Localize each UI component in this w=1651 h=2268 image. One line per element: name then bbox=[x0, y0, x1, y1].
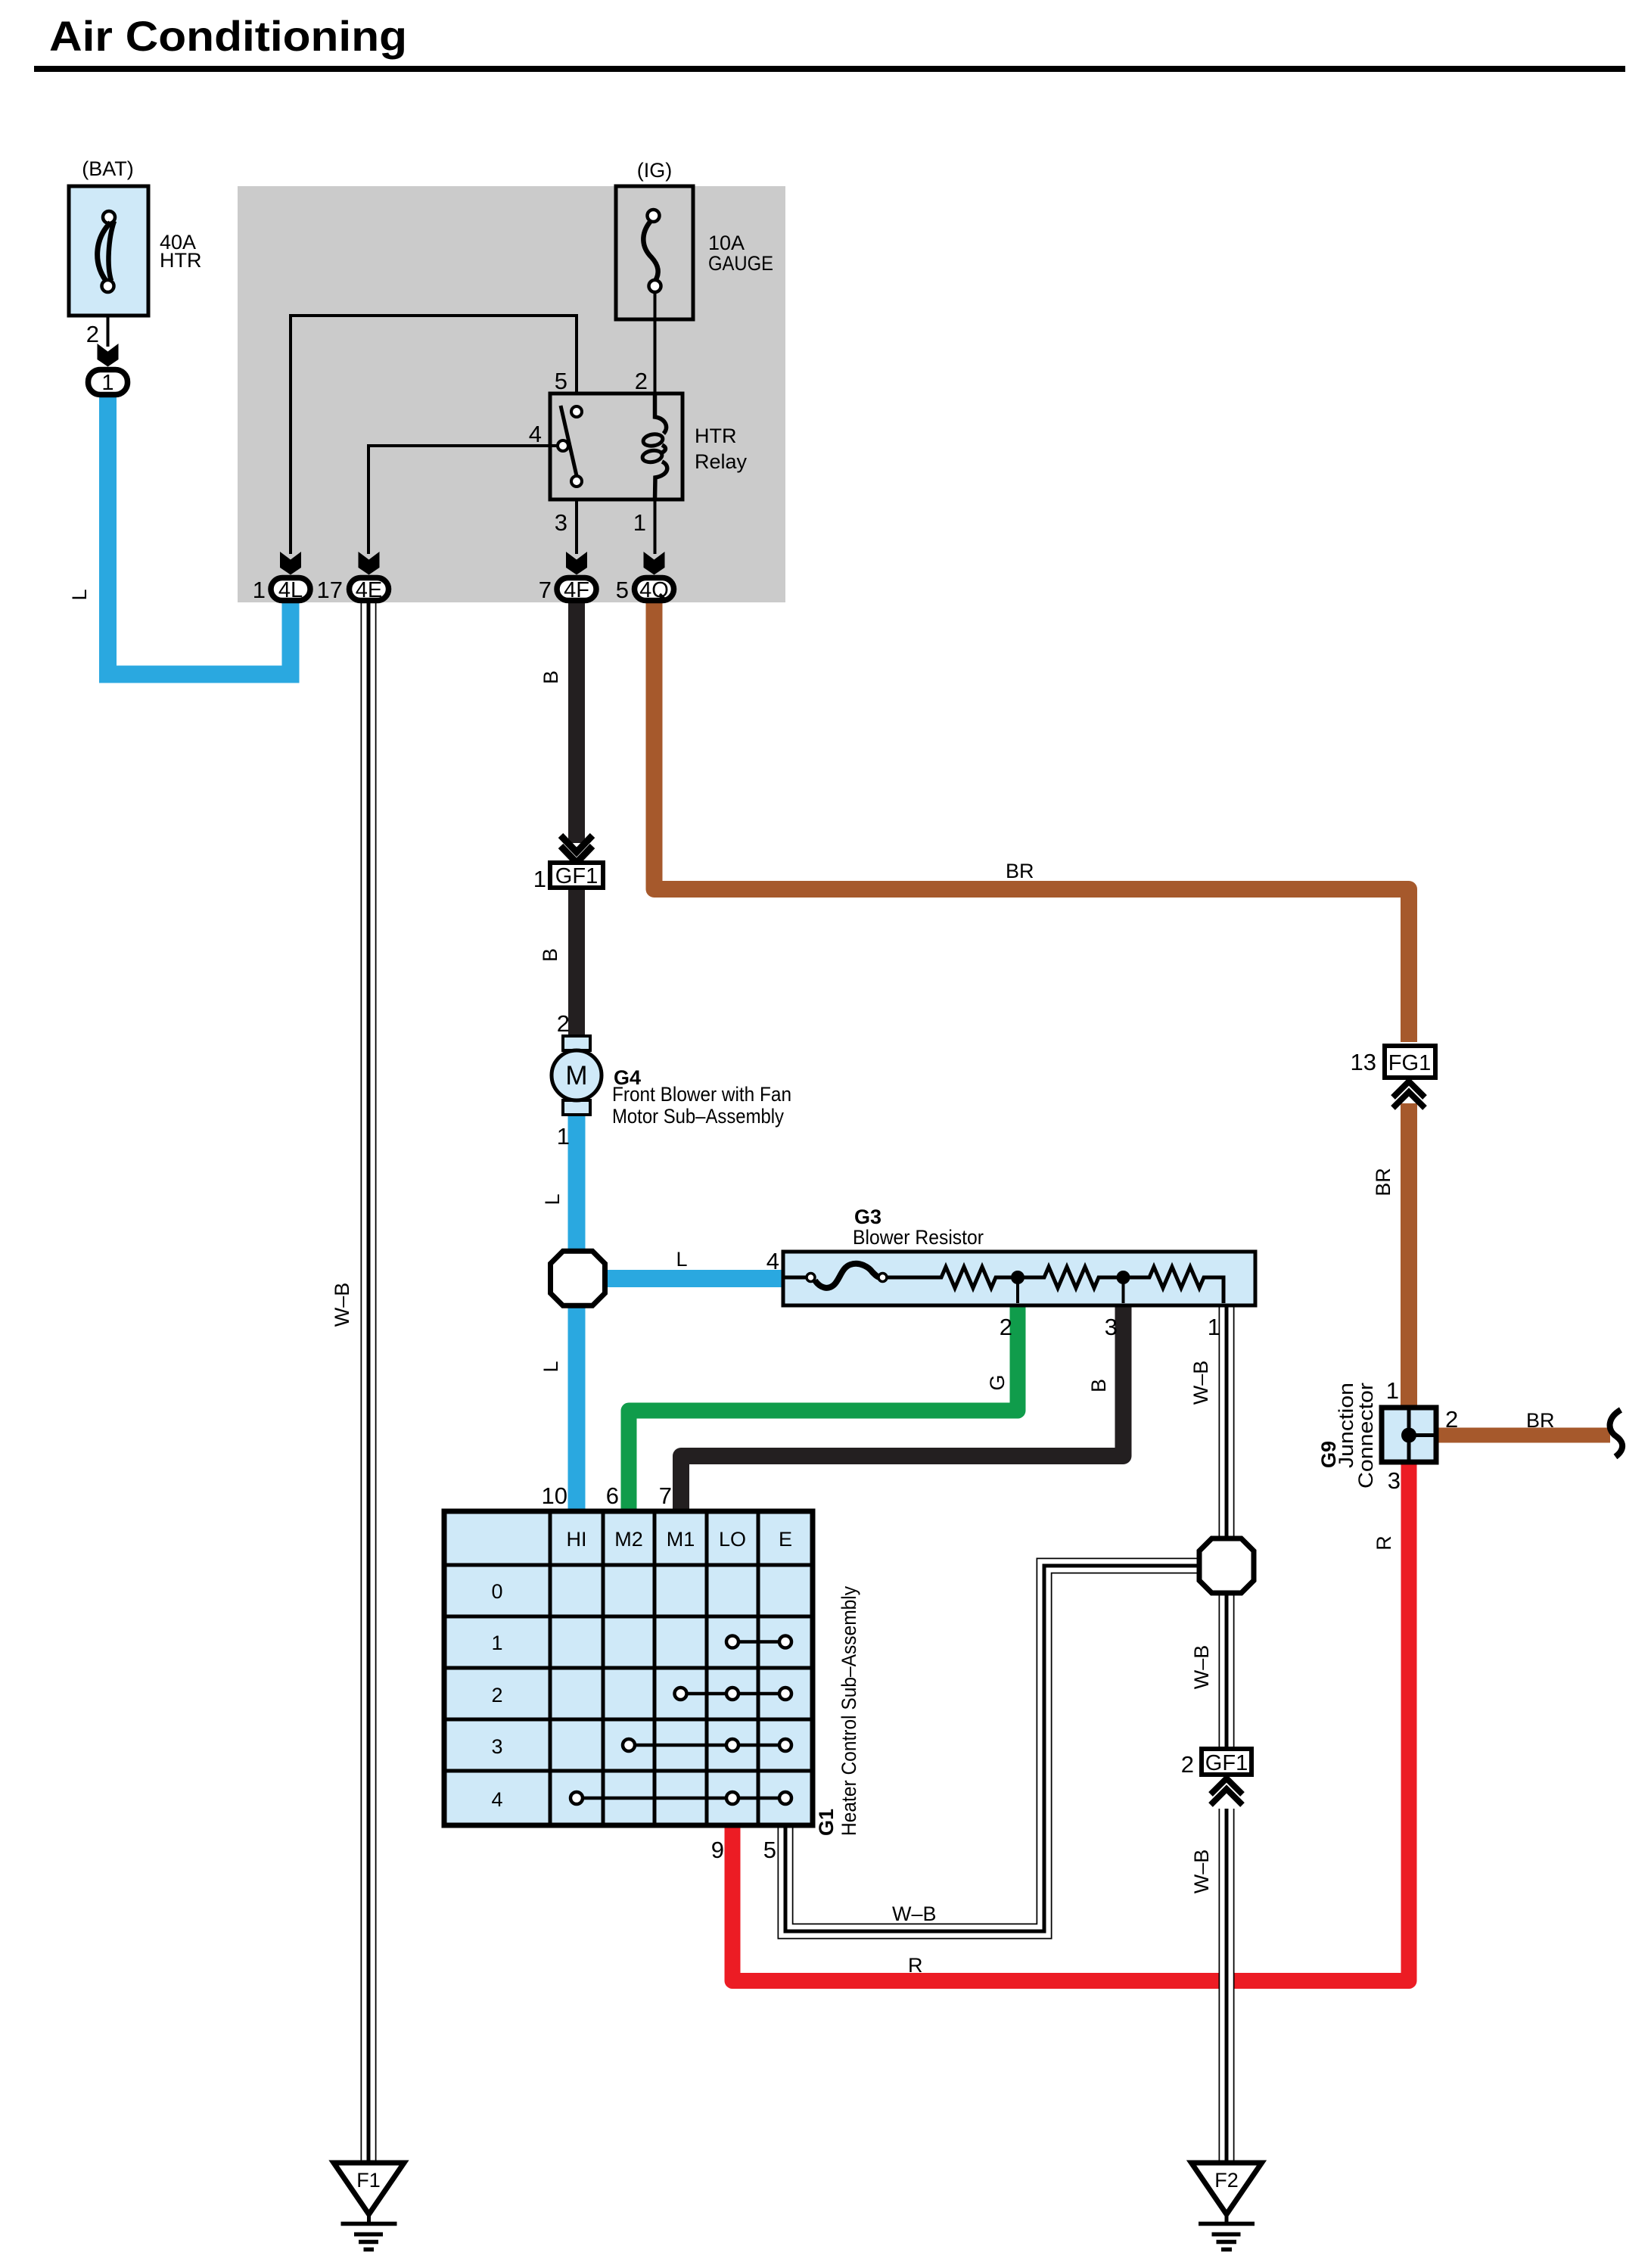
svg-text:R: R bbox=[908, 1954, 923, 1977]
heater control G1 switch table bbox=[444, 1511, 813, 1825]
svg-text:10: 10 bbox=[542, 1482, 567, 1509]
ground F1 bbox=[334, 2163, 404, 2250]
svg-text:2: 2 bbox=[557, 1010, 570, 1037]
wire G green: resistor pin 2 to heater control pin 6 bbox=[629, 1303, 1018, 1512]
wire B black: resistor pin 3 to heater control pin 7 bbox=[681, 1303, 1124, 1512]
svg-text:BR: BR bbox=[1006, 860, 1034, 882]
svg-text:4: 4 bbox=[491, 1788, 502, 1811]
wire BR brown: FG1 to G9 pin 1 bbox=[1401, 1103, 1417, 1406]
svg-text:G: G bbox=[986, 1374, 1009, 1390]
blower resistor G3 bbox=[783, 1252, 1255, 1305]
svg-text:1: 1 bbox=[1208, 1314, 1220, 1340]
pin 2 of fuse 40A bbox=[86, 316, 108, 347]
svg-text:Front Blower with Fan: Front Blower with Fan bbox=[612, 1083, 791, 1106]
svg-text:G1: G1 bbox=[815, 1809, 838, 1836]
svg-text:Relay: Relay bbox=[695, 450, 748, 473]
wire B black: GF1 to motor G4 bbox=[568, 888, 585, 1038]
svg-text:17: 17 bbox=[317, 577, 343, 603]
svg-text:GF1: GF1 bbox=[555, 864, 598, 888]
svg-text:9: 9 bbox=[711, 1837, 724, 1863]
svg-text:5: 5 bbox=[763, 1837, 776, 1863]
wire R red: heater control pin 9 to G9 pin 3 bbox=[732, 1461, 1409, 1981]
label Junction Connector rotated bbox=[1335, 1383, 1377, 1489]
switch contacts row 3 bbox=[623, 1739, 791, 1751]
svg-text:Air Conditioning: Air Conditioning bbox=[49, 12, 407, 60]
svg-text:3: 3 bbox=[491, 1735, 502, 1758]
svg-text:E: E bbox=[779, 1528, 792, 1551]
svg-text:2: 2 bbox=[86, 321, 99, 347]
label HTR Relay bbox=[695, 425, 748, 473]
connector 4F bbox=[539, 577, 596, 603]
svg-text:1: 1 bbox=[633, 509, 646, 536]
wire W-B: heater control pin 5 to junction bbox=[785, 1566, 1205, 1931]
svg-text:1: 1 bbox=[491, 1632, 502, 1654]
relay coil bbox=[642, 394, 667, 499]
junction (octagon) blower circuit bbox=[551, 1251, 605, 1305]
svg-text:W–B: W–B bbox=[331, 1283, 353, 1327]
relay HTR box bbox=[550, 394, 682, 499]
svg-text:M1: M1 bbox=[667, 1528, 695, 1551]
svg-text:BR: BR bbox=[1372, 1168, 1394, 1196]
wire W-B: 4E to ground F1 bbox=[361, 602, 377, 2163]
svg-text:M2: M2 bbox=[614, 1528, 643, 1551]
relay switch bbox=[558, 406, 582, 487]
wire relay pin 4 to 4E bbox=[368, 446, 558, 554]
svg-text:B: B bbox=[1087, 1379, 1110, 1392]
svg-text:(IG): (IG) bbox=[637, 159, 673, 182]
svg-text:Heater Control Sub–Assembly: Heater Control Sub–Assembly bbox=[838, 1586, 860, 1836]
svg-text:4F: 4F bbox=[564, 578, 589, 602]
harness arrow into 4L bbox=[280, 552, 301, 575]
connector 4L bbox=[253, 577, 310, 603]
svg-text:B: B bbox=[539, 670, 562, 684]
svg-text:L: L bbox=[539, 1361, 562, 1372]
label G3 Blower Resistor bbox=[853, 1206, 984, 1249]
svg-text:W–B: W–B bbox=[1189, 1361, 1212, 1405]
wire L blue: fuse 40A via connector 1 to 4L bbox=[108, 395, 291, 674]
svg-text:1: 1 bbox=[253, 577, 266, 603]
wire L blue: junction to blower resistor pin 4 bbox=[577, 1270, 787, 1287]
svg-text:(BAT): (BAT) bbox=[82, 157, 134, 180]
harness arrow into 4F bbox=[566, 552, 587, 575]
svg-text:0: 0 bbox=[491, 1580, 502, 1603]
junction connector G9 bbox=[1382, 1408, 1436, 1462]
svg-text:4: 4 bbox=[766, 1248, 779, 1274]
svg-text:2: 2 bbox=[1445, 1406, 1458, 1433]
svg-text:1: 1 bbox=[1386, 1377, 1399, 1404]
svg-text:4E: 4E bbox=[356, 578, 382, 602]
switch contacts row 2 bbox=[675, 1688, 792, 1700]
svg-text:2: 2 bbox=[491, 1684, 502, 1706]
svg-text:W–B: W–B bbox=[1190, 1850, 1213, 1894]
svg-text:5: 5 bbox=[616, 577, 629, 603]
svg-text:M: M bbox=[565, 1061, 587, 1090]
svg-text:HTR: HTR bbox=[695, 425, 737, 447]
svg-text:HTR: HTR bbox=[160, 249, 202, 272]
wire BR brown: 4Q to FG1 bbox=[654, 602, 1410, 1042]
harness arrow into 4Q bbox=[644, 552, 665, 575]
svg-text:BR: BR bbox=[1526, 1409, 1555, 1432]
svg-text:HI: HI bbox=[567, 1528, 587, 1551]
connector FG1 bbox=[1351, 1046, 1435, 1078]
svg-text:1: 1 bbox=[101, 371, 113, 395]
relay block background bbox=[238, 186, 785, 602]
svg-text:5: 5 bbox=[555, 368, 567, 394]
svg-text:2: 2 bbox=[1181, 1751, 1194, 1778]
svg-text:6: 6 bbox=[606, 1482, 619, 1509]
title Air Conditioning bbox=[34, 12, 1625, 72]
svg-text:GAUGE: GAUGE bbox=[708, 252, 773, 275]
wire relay pin 1 to 4Q bbox=[654, 499, 657, 554]
chevron arrows into GF1 no.2 bbox=[1211, 1778, 1242, 1805]
svg-text:F2: F2 bbox=[1214, 2169, 1239, 2192]
svg-text:FG1: FG1 bbox=[1388, 1051, 1431, 1075]
svg-text:1: 1 bbox=[533, 866, 546, 892]
svg-text:10A: 10A bbox=[708, 232, 745, 254]
wire B black: 4F to GF1 bbox=[568, 602, 585, 843]
svg-text:3: 3 bbox=[1105, 1314, 1118, 1340]
chevron arrows into GF1 no.1 bbox=[561, 835, 592, 863]
ground F2 bbox=[1192, 2163, 1262, 2250]
label 10A GAUGE bbox=[708, 232, 773, 275]
connector 1 bbox=[89, 370, 128, 396]
chevron arrows into FG1 bbox=[1393, 1081, 1425, 1108]
motor G4 bbox=[552, 1036, 602, 1115]
svg-text:2: 2 bbox=[1000, 1314, 1012, 1340]
svg-text:W–B: W–B bbox=[892, 1902, 937, 1925]
wire relay pin 3 to 4F bbox=[575, 499, 578, 554]
connector 4E bbox=[317, 577, 389, 603]
svg-text:Connector: Connector bbox=[1354, 1383, 1377, 1489]
connector GF1 no.2 bbox=[1181, 1749, 1251, 1778]
svg-text:Motor Sub–Assembly: Motor Sub–Assembly bbox=[612, 1105, 784, 1128]
svg-text:W–B: W–B bbox=[1190, 1645, 1213, 1690]
svg-text:G3: G3 bbox=[854, 1206, 881, 1228]
svg-text:13: 13 bbox=[1351, 1049, 1376, 1075]
svg-text:2: 2 bbox=[635, 368, 648, 394]
harness arrow into connector 1 bbox=[98, 344, 119, 367]
svg-text:4: 4 bbox=[529, 421, 542, 447]
svg-text:L: L bbox=[541, 1193, 564, 1205]
label G4 Front Blower with Fan Motor Sub-Assembly bbox=[612, 1066, 791, 1128]
fuse 10A GAUGE bbox=[616, 186, 693, 319]
connector GF1 no.1 bbox=[533, 863, 603, 892]
switch contacts row 4 bbox=[571, 1792, 791, 1804]
svg-text:Blower Resistor: Blower Resistor bbox=[853, 1226, 984, 1249]
svg-text:7: 7 bbox=[659, 1482, 672, 1509]
svg-text:L: L bbox=[68, 589, 91, 600]
svg-text:3: 3 bbox=[555, 509, 567, 536]
switch contacts row 1 bbox=[726, 1636, 791, 1648]
svg-text:GF1: GF1 bbox=[1205, 1751, 1248, 1775]
label 40A HTR bbox=[160, 231, 202, 272]
svg-text:7: 7 bbox=[539, 577, 552, 603]
wire relay pin 5 to 4L bbox=[291, 316, 577, 554]
wire BR brown: G9 pin 2 to break bbox=[1436, 1428, 1610, 1443]
svg-text:LO: LO bbox=[719, 1528, 746, 1551]
fuse 40A HTR bbox=[69, 186, 148, 316]
svg-text:L: L bbox=[676, 1248, 687, 1271]
harness break symbol bbox=[1610, 1410, 1623, 1457]
junction (octagon) ground circuit bbox=[1199, 1538, 1254, 1593]
svg-text:3: 3 bbox=[1388, 1467, 1401, 1494]
wire fuse 10A to relay pin 2 bbox=[654, 292, 657, 394]
svg-text:R: R bbox=[1373, 1535, 1395, 1551]
svg-text:4L: 4L bbox=[278, 578, 303, 602]
svg-text:1: 1 bbox=[557, 1123, 570, 1150]
svg-text:B: B bbox=[539, 948, 561, 962]
connector 4Q bbox=[616, 577, 674, 603]
svg-text:F1: F1 bbox=[356, 2169, 381, 2192]
harness arrow into 4E bbox=[359, 552, 380, 575]
wire W-B: resistor pin 1 via junction and GF1 to ground F2 bbox=[1219, 1303, 1235, 2163]
wire L blue: motor G4 to junction to heater control pin 10 bbox=[568, 1112, 586, 1512]
